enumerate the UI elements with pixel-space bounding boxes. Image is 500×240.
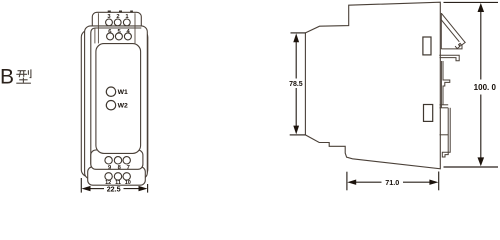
- front view: row1 terminal numbers 3 2 1: [107, 14, 129, 20]
- front view: front face panel: [96, 44, 141, 154]
- front view: terminal inset wall left: [97, 13, 99, 43]
- svg-text:100. 0: 100. 0: [474, 83, 497, 92]
- svg-text:78.5: 78.5: [289, 81, 303, 88]
- side view: din rail top flange (hatched triangle): [439, 13, 465, 157]
- dimension 78.5: extension ticks: [290, 33, 306, 135]
- side view: vent slot upper: [423, 37, 431, 55]
- side view: clip middle bar: [440, 61, 442, 108]
- front view: body plate: [85, 26, 148, 179]
- front view: potentiometer W2: [106, 101, 115, 110]
- front view: bottom row2 terminal circles: [105, 173, 130, 180]
- front view: potentiometer W1: [106, 87, 115, 96]
- side view: vent slot lower: [424, 105, 433, 122]
- svg-text:22.5: 22.5: [107, 184, 121, 193]
- front view: bottom terminal tier2: [88, 167, 146, 185]
- front view: row2 terminal circles: [107, 33, 132, 40]
- dimension 22.5: line segments: [88, 188, 104, 190]
- dimension 71.0: line segments: [355, 181, 382, 183]
- dimension 71.0: extension lines: [347, 172, 439, 191]
- svg-text:B: B: [0, 66, 14, 89]
- side view: rail lower flange bar: [439, 55, 459, 61]
- front view: bottom terminal tier1: [91, 150, 143, 169]
- side view: rail upper flange bar: [441, 45, 462, 49]
- side view: clip lower connects: [440, 104, 449, 106]
- front view: screw marks on top edge: [108, 11, 133, 13]
- svg-text:10: 10: [125, 180, 131, 186]
- front view: terminal inset wall left2: [94, 28, 96, 44]
- side view: rail edge zigzag: [455, 41, 465, 49]
- front view: bottom row1 terminal circles: [105, 157, 130, 164]
- side view: clip foot hook: [442, 150, 450, 157]
- front view: back plate: [81, 30, 148, 176]
- svg-text:71.0: 71.0: [385, 178, 399, 187]
- svg-text:W2: W2: [118, 103, 128, 110]
- dimension 78.5: shaft: [295, 41, 297, 79]
- side view: module outline: [305, 2, 440, 169]
- svg-text:7: 7: [127, 165, 130, 171]
- side view: clip lower bar: [447, 108, 449, 150]
- dimension 78.5: arrowheads: [293, 33, 299, 42]
- dimension 100.0: shaft: [480, 10, 482, 80]
- front view: bottom row1 numbers 9 8 7: [108, 165, 130, 171]
- front view: bottom row2 numbers 12 11 10: [105, 180, 131, 186]
- dimension 22.5: extension lines: [81, 178, 147, 193]
- front view: row1 terminal circles: [106, 19, 131, 26]
- front view: terminal inset wall right: [134, 13, 136, 43]
- dimension 100.0: extension ticks: [444, 2, 499, 167]
- dimension 71.0: arrowheads: [347, 180, 356, 185]
- svg-text:W1: W1: [118, 89, 128, 96]
- front view: top terminal block row1: [92, 12, 141, 32]
- label B-type hanzi 型 (hand drawn strokes): [16, 69, 31, 83]
- dimension 22.5: arrowheads: [82, 186, 91, 191]
- front view: row2 terminal numbers 6 5 4: [108, 29, 130, 35]
- front view: inner body left edge and top: [91, 28, 142, 165]
- dimension 100.0: arrowheads: [478, 3, 485, 12]
